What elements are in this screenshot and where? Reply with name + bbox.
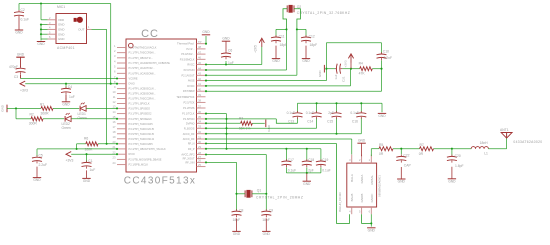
- svg-text:R2: R2: [30, 113, 34, 117]
- svg-text:RF_P: RF_P: [188, 147, 195, 151]
- svg-text:47K: 47K: [359, 71, 366, 75]
- svg-text:41: 41: [198, 82, 201, 86]
- svg-text:P1.5/TPI_UCA0TXD/...: P1.5/TPI_UCA0TXD/...: [129, 66, 155, 70]
- svg-text:Green: Green: [62, 126, 71, 130]
- svg-text:DVCC: DVCC: [187, 84, 194, 88]
- svg-text:VDD: VDD: [58, 18, 64, 22]
- svg-text:0.1uF: 0.1uF: [287, 111, 295, 115]
- svg-text:23: 23: [113, 156, 116, 160]
- svg-text:DVPAD: DVPAD: [186, 121, 195, 125]
- svg-text:300R: 300R: [29, 121, 38, 125]
- svg-text:C4: C4: [68, 85, 72, 89]
- svg-text:18nH: 18nH: [480, 141, 489, 145]
- svg-text:P2.0/TB_MOSI/SPB_DBASE: P2.0/TB_MOSI/SPB_DBASE: [129, 157, 162, 161]
- svg-text:AVCC_RF: AVCC_RF: [183, 132, 195, 136]
- svg-text:P1.4/TPI_UCB0SCLK/...: P1.4/TPI_UCB0SCLK/...: [129, 87, 157, 91]
- svg-text:C11: C11: [279, 34, 285, 38]
- svg-text:470pF: 470pF: [9, 65, 18, 69]
- svg-text:CAP: CAP: [404, 164, 412, 168]
- svg-text:Q1: Q1: [257, 189, 262, 193]
- svg-text:C8: C8: [239, 208, 243, 212]
- svg-text:P1.1/TPI_SP0CLK: P1.1/TPI_SP0CLK: [129, 101, 150, 105]
- svg-text:GND: GND: [318, 70, 322, 78]
- svg-text:P2.6/Y2N: P2.6/Y2N: [184, 68, 195, 72]
- svg-text:R3: R3: [239, 117, 243, 121]
- svg-text:CC: CC: [141, 28, 159, 40]
- svg-text:GND: GND: [1, 104, 5, 112]
- svg-text:P1.7/TPI_UCA0RXD/TPI_UCB0STE: P1.7/TPI_UCA0RXD/TPI_UCB0STE: [129, 61, 171, 65]
- svg-text:R1: R1: [40, 103, 44, 107]
- svg-text:42: 42: [198, 77, 201, 81]
- svg-text:2.2uF: 2.2uF: [39, 163, 48, 167]
- svg-text:P2.4/TPI_CBOUT0/TPI_TA1CLK: P2.4/TPI_CBOUT0/TPI_TA1CLK: [129, 147, 166, 151]
- svg-text:39: 39: [198, 93, 201, 97]
- svg-text:P3.4/TA0/...: P3.4/TA0/...: [181, 52, 195, 56]
- svg-text:RF_XIN: RF_XIN: [185, 160, 194, 164]
- svg-text:AVCC_RF2: AVCC_RF2: [181, 153, 195, 157]
- svg-text:C20: C20: [455, 154, 461, 158]
- svg-text:17: 17: [113, 125, 116, 129]
- svg-text:25: 25: [198, 163, 201, 167]
- svg-text:BALA: BALA: [350, 174, 354, 182]
- svg-text:0433AT62A0020: 0433AT62A0020: [513, 140, 542, 144]
- svg-text:ANT1: ANT1: [500, 128, 509, 132]
- svg-text:18: 18: [113, 130, 116, 134]
- svg-text:P3.0/TPI_SP0SEG: P3.0/TPI_SP0SEG: [129, 106, 151, 110]
- svg-text:RST/SBW: RST/SBW: [183, 89, 195, 93]
- svg-text:1uF: 1uF: [334, 74, 338, 79]
- svg-text:0R: 0R: [379, 152, 384, 156]
- svg-text:P3.5/SMCLK: P3.5/SMCLK: [180, 57, 195, 61]
- svg-text:300R: 300R: [41, 112, 50, 116]
- svg-text:45: 45: [198, 61, 201, 65]
- svg-text:C19: C19: [322, 158, 328, 162]
- svg-text:GNDC: GNDC: [370, 193, 374, 203]
- svg-text:GND: GND: [302, 59, 310, 63]
- svg-text:35: 35: [198, 115, 201, 119]
- svg-text:2pF: 2pF: [328, 111, 334, 115]
- svg-text:14: 14: [113, 110, 116, 114]
- svg-text:P1.6/TDO: P1.6/TDO: [183, 117, 194, 121]
- svg-text:1uF: 1uF: [69, 95, 75, 99]
- svg-text:MIC1: MIC1: [57, 5, 65, 9]
- svg-text:P1.6/TPI_UCA0SOMI/...: P1.6/TPI_UCA0SOMI/...: [129, 71, 157, 75]
- svg-text:GND: GND: [58, 37, 64, 41]
- svg-text:VCORE: VCORE: [129, 77, 138, 81]
- svg-text:C3: C3: [14, 75, 18, 79]
- svg-text:2.2nF: 2.2nF: [384, 56, 393, 60]
- svg-text:R7: R7: [420, 143, 424, 147]
- svg-text:ACMP401: ACMP401: [57, 46, 75, 50]
- svg-text:TP: TP: [198, 40, 202, 44]
- svg-text:GND: GND: [58, 32, 64, 36]
- svg-text:GND: GND: [263, 232, 271, 236]
- svg-text:24: 24: [113, 161, 116, 165]
- svg-text:AVSS: AVSS: [188, 79, 195, 83]
- svg-text:BALB: BALB: [350, 194, 354, 202]
- svg-text:R6: R6: [84, 137, 88, 141]
- svg-text:GND: GND: [37, 42, 45, 46]
- svg-text:29: 29: [198, 145, 201, 149]
- svg-text:18pF: 18pF: [310, 43, 318, 47]
- svg-text:CRYSTAL_2PIN_26MHZ: CRYSTAL_2PIN_26MHZ: [256, 195, 304, 199]
- svg-text:31: 31: [198, 135, 201, 139]
- svg-text:R_BOOS: R_BOOS: [184, 126, 195, 130]
- svg-text:GND: GND: [368, 228, 376, 232]
- svg-text:P1.0/TPI_TA0CC2RA/...: P1.0/TPI_TA0CC2RA/...: [129, 97, 157, 101]
- svg-text:10: 10: [113, 90, 116, 94]
- svg-text:1.8pF: 1.8pF: [455, 164, 464, 168]
- svg-text:L1: L1: [484, 151, 488, 155]
- svg-text:GND: GND: [33, 178, 41, 182]
- svg-text:P3.3/TPI_TA0CC1R5: P3.3/TPI_TA0CC1R5: [129, 122, 154, 126]
- svg-text:GND: GND: [358, 139, 366, 143]
- svg-text:P1.2/TPI_CBOUT1/...: P1.2/TPI_CBOUT1/...: [129, 56, 154, 60]
- svg-text:28: 28: [198, 151, 201, 155]
- svg-text:+3V3: +3V3: [66, 159, 74, 163]
- svg-text:P3.1/TPI_SP0SEG2: P3.1/TPI_SP0SEG2: [129, 112, 153, 116]
- svg-text:GND: GND: [222, 37, 230, 41]
- svg-text:32: 32: [198, 130, 201, 134]
- svg-text:RF_XOUT: RF_XOUT: [183, 157, 195, 161]
- svg-text:GND: GND: [272, 59, 280, 63]
- svg-text:30: 30: [198, 140, 201, 144]
- svg-text:P3.5/TPI_TA0CC3CJ5: P3.5/TPI_TA0CC3CJ5: [129, 132, 155, 136]
- svg-text:GND: GND: [17, 52, 25, 56]
- svg-text:C16: C16: [352, 120, 358, 124]
- svg-text:12: 12: [113, 100, 116, 104]
- svg-text:C17: C17: [288, 158, 294, 162]
- svg-text:P3.6/TPI_TA0CC3CJ4: P3.6/TPI_TA0CC3CJ4: [129, 137, 155, 141]
- svg-text:P2.1/SPB_MCLK: P2.1/SPB_MCLK: [129, 163, 149, 167]
- svg-text:GND: GND: [303, 182, 311, 186]
- svg-text:BALUN_CC430: BALUN_CC430: [338, 192, 342, 212]
- svg-text:44: 44: [198, 66, 201, 70]
- svg-text:+3V3: +3V3: [20, 89, 28, 93]
- svg-text:43: 43: [198, 72, 201, 76]
- svg-text:1uF: 1uF: [90, 168, 96, 172]
- svg-text:P1.1/TPI_TA0CCR0A/...: P1.1/TPI_TA0CCR0A/...: [129, 51, 157, 55]
- svg-text:2pF: 2pF: [308, 168, 314, 172]
- svg-text:C9: C9: [269, 208, 273, 212]
- svg-text:0.1uF: 0.1uF: [306, 111, 314, 115]
- svg-text:GND: GND: [448, 179, 456, 183]
- svg-text:0896BM15A0001: 0896BM15A0001: [378, 175, 382, 197]
- svg-text:GND: GND: [58, 28, 64, 32]
- svg-text:C15: C15: [327, 120, 333, 124]
- svg-text:0.1uF: 0.1uF: [322, 168, 330, 172]
- svg-text:P2.1/VOUT: P2.1/VOUT: [181, 73, 194, 77]
- svg-text:GND: GND: [15, 31, 23, 35]
- svg-text:GND: GND: [378, 114, 386, 118]
- svg-text:P1.0/TA0/TA0CLK/ACLK: P1.0/TA0/TA0CLK/ACLK: [129, 46, 157, 50]
- svg-text:C6: C6: [228, 49, 232, 53]
- svg-text:GND: GND: [267, 124, 271, 132]
- svg-text:19: 19: [113, 135, 116, 139]
- svg-text:C10: C10: [383, 50, 389, 54]
- svg-text:OUT: OUT: [78, 28, 85, 32]
- svg-text:CRYSTAL_2PIN_32.768KHZ: CRYSTAL_2PIN_32.768KHZ: [297, 11, 351, 15]
- svg-text:27: 27: [198, 155, 201, 159]
- svg-text:+3V3: +3V3: [343, 60, 347, 67]
- svg-text:GND: GND: [62, 102, 70, 106]
- svg-text:GND: GND: [58, 23, 64, 27]
- svg-text:CC430F513x: CC430F513x: [124, 176, 196, 187]
- svg-text:RF_N: RF_N: [188, 142, 195, 146]
- svg-text:38: 38: [198, 99, 201, 103]
- svg-text:RVIO: RVIO: [129, 152, 135, 156]
- svg-text:+2V5: +2V5: [253, 45, 257, 53]
- svg-text:0.1uF: 0.1uF: [288, 168, 296, 172]
- svg-text:C18: C18: [308, 158, 314, 162]
- svg-text:46: 46: [198, 56, 201, 60]
- svg-text:TEST/SBWTCK: TEST/SBWTCK: [176, 95, 194, 99]
- svg-text:GND: GND: [398, 180, 406, 184]
- svg-text:R4: R4: [359, 62, 363, 66]
- svg-text:100K: 100K: [85, 147, 94, 151]
- svg-text:GND: GND: [233, 232, 241, 236]
- svg-text:R5: R5: [379, 143, 383, 147]
- svg-text:P2.3/...: P2.3/...: [186, 47, 194, 51]
- svg-text:GND: GND: [202, 30, 210, 34]
- svg-text:PJ.1/TCLK: PJ.1/TCLK: [182, 112, 195, 116]
- svg-text:1uF: 1uF: [228, 61, 234, 65]
- svg-text:26: 26: [198, 159, 201, 163]
- svg-text:C22: C22: [403, 154, 409, 158]
- svg-text:AVCC_RF: AVCC_RF: [183, 137, 195, 141]
- svg-text:C5: C5: [39, 154, 43, 158]
- svg-text:P3.7/TPI_TA0CC2R5: P3.7/TPI_TA0CC2R5: [129, 142, 154, 146]
- svg-text:33: 33: [198, 125, 201, 129]
- svg-text:GNDB: GNDB: [360, 194, 364, 203]
- svg-text:C21: C21: [341, 76, 345, 82]
- svg-text:DVIO: DVIO: [129, 82, 135, 86]
- svg-text:16: 16: [113, 120, 116, 124]
- svg-text:UNBAL: UNBAL: [370, 175, 374, 185]
- svg-text:34: 34: [198, 120, 201, 124]
- svg-text:GND: GND: [83, 179, 91, 183]
- svg-text:Green: Green: [78, 116, 87, 120]
- svg-text:C12: C12: [309, 34, 315, 38]
- svg-text:48: 48: [198, 45, 201, 49]
- svg-text:C14: C14: [307, 120, 313, 124]
- svg-text:P1.3/TPI_UCB0SOMI/...: P1.3/TPI_UCB0SOMI/...: [129, 92, 157, 96]
- svg-text:P3.4/TPI_TA0CC2CJ5: P3.4/TPI_TA0CC2CJ5: [129, 127, 155, 131]
- svg-text:P2.5/TCK: P2.5/TCK: [183, 100, 194, 104]
- svg-text:18pF: 18pF: [280, 43, 288, 47]
- svg-text:37: 37: [198, 104, 201, 108]
- svg-text:40: 40: [198, 88, 201, 92]
- svg-text:P3.2/TPI_SP0SEG3: P3.2/TPI_SP0SEG3: [129, 117, 153, 121]
- svg-text:0.1uF: 0.1uF: [350, 111, 358, 115]
- svg-text:GNDA: GNDA: [360, 175, 364, 184]
- svg-text:C1: C1: [88, 159, 92, 163]
- svg-text:47: 47: [198, 50, 201, 54]
- svg-text:0R: 0R: [419, 152, 424, 156]
- svg-text:P1.2/TMS: P1.2/TMS: [183, 106, 195, 110]
- svg-text:36: 36: [198, 110, 201, 114]
- svg-text:Thermal Pad: Thermal Pad: [177, 41, 194, 45]
- svg-text:0.1uF: 0.1uF: [21, 18, 30, 22]
- svg-text:C2: C2: [21, 8, 25, 12]
- svg-text:RVCC: RVCC: [187, 63, 194, 67]
- svg-text:Q2: Q2: [297, 5, 302, 9]
